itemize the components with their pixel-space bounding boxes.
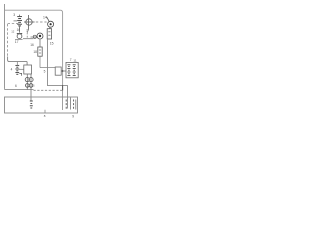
svg-text:3: 3 — [13, 13, 15, 17]
wire battery left stub — [14, 20, 18, 22]
cell C1 bar — [17, 33, 22, 35]
tank box — [5, 97, 78, 113]
lamp circle La — [25, 78, 29, 82]
wire U2 to bus — [61, 70, 62, 72]
wire horizontal y67.6 — [40, 67, 55, 69]
battery B1 — [17, 17, 22, 26]
wire from left box bottom b into tank — [30, 74, 32, 101]
plate x70.6 — [70, 98, 72, 110]
wire vertical through M1 — [28, 15, 30, 30]
wire B2 to left box — [19, 68, 24, 70]
resistor R2 box — [38, 47, 42, 56]
electrode E1 bars in tank — [30, 101, 33, 108]
right box battery unit — [66, 62, 78, 77]
wire left border vertical — [4, 4, 6, 89]
cell C1 circle — [17, 34, 22, 39]
wire horizontal y38.7 — [23, 38, 33, 40]
electrode dashes B — [73, 100, 75, 110]
lamp circle Lb — [29, 78, 33, 82]
wire into M3 — [31, 36, 38, 38]
svg-text:15: 15 — [50, 41, 54, 45]
meter circle M2 — [48, 21, 54, 27]
svg-text:17: 17 — [15, 40, 19, 44]
small box U2 — [55, 67, 61, 75]
svg-text:5: 5 — [44, 69, 46, 73]
wire dashed enclosure top — [8, 23, 20, 25]
wire horizontal through M1 — [24, 21, 35, 23]
wire long drop from R1 to tank via corner — [48, 39, 68, 109]
svg-text:16: 16 — [17, 28, 21, 32]
wire B2 top lead — [16, 62, 18, 66]
electrode dashes A — [65, 100, 67, 110]
bracket under B2 — [19, 73, 21, 75]
wire dashed enclosure left vertical — [7, 24, 9, 58]
svg-text:9: 9 — [72, 114, 74, 118]
wire from left box bottom a — [26, 74, 28, 90]
svg-text:7: 7 — [70, 58, 72, 62]
wire battery B1 down lead — [19, 26, 21, 33]
battery B2 — [15, 65, 19, 74]
lamp circle Ld — [29, 84, 33, 88]
wire bottom-left horizontal y89.5 — [5, 89, 34, 90]
wire R2 down to y67.5 — [39, 56, 41, 67]
svg-text:18: 18 — [33, 50, 37, 54]
wire dashed link y22 — [36, 21, 47, 23]
plate wire from bus into tank — [62, 90, 64, 110]
svg-text:6: 6 — [15, 84, 17, 88]
wire battery B1 top lead — [19, 15, 21, 17]
wire bus to right box — [63, 70, 66, 72]
svg-text:16: 16 — [30, 43, 34, 47]
leader tick for label 8 — [44, 110, 46, 113]
meter circle M3 — [37, 33, 43, 39]
wire solid corner to line y61.5 — [8, 57, 28, 62]
coupler small circle — [33, 35, 36, 38]
svg-text:12: 12 — [11, 29, 15, 33]
wire dashed horizontal y90.3 — [34, 89, 63, 91]
wire under C1 — [15, 38, 23, 40]
battery stack S2 — [73, 65, 76, 76]
wire diagonal into M2 — [47, 17, 50, 22]
wire dashed vertical x27 — [26, 33, 28, 39]
wire M1 bottom bend — [27, 29, 28, 32]
plate x75.8 — [75, 100, 77, 110]
junction segment on bus — [62, 85, 64, 91]
meter circle M1 — [26, 19, 32, 25]
svg-text:4: 4 — [11, 68, 13, 72]
battery stack S1 — [67, 65, 70, 76]
wire M3 to R2 — [39, 39, 41, 47]
wire drop into left box — [26, 62, 28, 65]
svg-text:14: 14 — [43, 15, 47, 19]
wire top border with rounded corner into right bus — [5, 10, 63, 90]
resistor R1 box — [47, 29, 51, 39]
junction dot — [62, 70, 64, 72]
lamp circle Lc — [26, 84, 30, 88]
left box U1 — [24, 65, 32, 74]
wire M2 to R1 stub — [49, 27, 51, 29]
